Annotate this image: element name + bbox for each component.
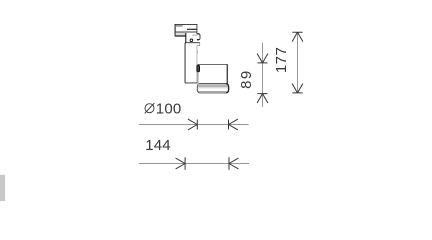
- svg-text:100: 100: [156, 101, 182, 118]
- svg-text:144: 144: [145, 137, 171, 154]
- svg-text:89: 89: [238, 69, 255, 89]
- svg-text:177: 177: [273, 47, 290, 74]
